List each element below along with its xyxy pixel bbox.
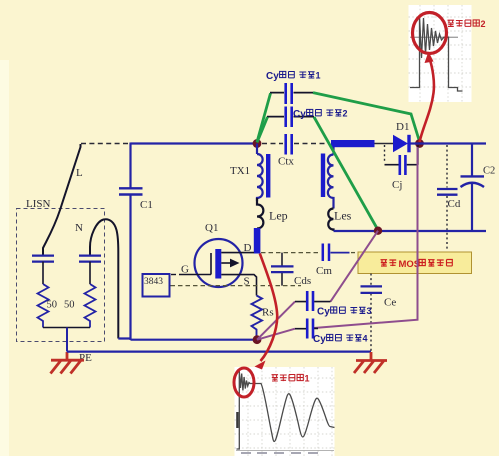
svg-text:2: 2 [481, 19, 486, 29]
waveform 1 trace [237, 371, 335, 449]
capacitor Cy1 position1 [286, 83, 292, 104]
wire [42, 262, 44, 284]
svg-text:Cy: Cy [317, 307, 330, 318]
scope window 2 (top right) [409, 5, 472, 102]
svg-text:Ce: Ce [384, 297, 396, 309]
heatsink box 开关MOS管散热器 [358, 252, 472, 274]
diode D1 [393, 121, 411, 152]
capacitor Cy2 position2 [286, 107, 292, 128]
wire purple Cy3 path (node C to node D) [257, 231, 378, 340]
capacitor Cds [271, 253, 311, 287]
wire green Cy1 path [257, 93, 420, 142]
Q1 gate electrode [196, 253, 211, 275]
svg-text:Cy: Cy [293, 109, 306, 120]
svg-text:1: 1 [305, 374, 310, 384]
svg-text:Cy: Cy [266, 71, 279, 82]
capacitor Cy3 position3 [307, 291, 313, 311]
resistor 50 (left) [38, 284, 49, 328]
LISN box (dashed enclosure) [17, 209, 105, 342]
ground chassis right (red) [354, 352, 387, 373]
svg-text:D: D [244, 242, 252, 254]
svg-text:2: 2 [343, 109, 348, 119]
node A (primary top junction) [253, 139, 262, 148]
capacitor C1 [119, 188, 143, 194]
svg-text:L: L [76, 167, 83, 179]
wire dashed drain line [261, 252, 321, 254]
capacitor Cm [316, 244, 357, 278]
wire green Cy2 path [257, 117, 378, 230]
wire Cy1 leads [270, 92, 313, 94]
svg-text:3: 3 [367, 306, 372, 316]
svg-text:Les: Les [334, 209, 352, 223]
capacitor LISN-left [32, 256, 54, 262]
node C (secondary bottom junction) [374, 227, 382, 235]
svg-text:Q1: Q1 [205, 222, 218, 234]
svg-text:Ctx: Ctx [278, 156, 294, 168]
wire PE rail [67, 351, 371, 353]
wire dashed 3843 to source [171, 285, 302, 287]
svg-text:Cy: Cy [313, 334, 326, 345]
capacitor Ctx [286, 134, 292, 155]
svg-text:4: 4 [363, 334, 368, 344]
svg-text:LISN: LISN [26, 198, 51, 210]
svg-text:1: 1 [316, 71, 321, 81]
wire purple Cy4 path (node D to node B) [257, 147, 418, 340]
capacitor Cd (rail to heatsink, dashed) [437, 145, 461, 251]
annotation ellipse 1 (red circle) [234, 368, 254, 397]
wire bar to D1 [375, 143, 394, 145]
transformer core bar secondary [321, 154, 325, 198]
Q1 channel bar [215, 249, 221, 279]
transformer core bar primary [266, 154, 270, 198]
annotation arrow drain to scope1 (red) [260, 254, 277, 362]
wire top rail [131, 142, 257, 144]
wire bottom rail primary [118, 339, 257, 340]
wire L (curved phase wire) [43, 144, 81, 256]
svg-text:D1: D1 [396, 121, 409, 133]
svg-text:Lep: Lep [269, 209, 288, 223]
wire secondary bottom rail [334, 230, 487, 232]
MOSFET drain thick bar [254, 228, 261, 254]
capacitor Ce (heatsink to earth, dashed) [361, 274, 397, 352]
label 高频干扰1 [272, 374, 310, 384]
Q1 drain lead [221, 252, 254, 254]
label Cy电容 位置1 [266, 71, 321, 83]
svg-text:Cm: Cm [316, 265, 332, 277]
svg-text:3843: 3843 [144, 277, 163, 287]
resistor 50 (right) [85, 284, 96, 328]
annotation ellipse 2 (red circle) [413, 13, 447, 54]
node B (D1 cathode junction) [415, 139, 424, 148]
svg-text:Cj: Cj [392, 179, 402, 191]
scope window 1 (bottom) [235, 367, 335, 456]
capacitor Cy4 position4 [307, 319, 313, 339]
svg-text:50: 50 [47, 300, 58, 311]
wire Cy3 leads [295, 301, 331, 303]
wire dashed Ctx to shield bar [294, 143, 330, 145]
transformer TX1 secondary winding [328, 144, 334, 209]
capacitor C2 (output electrolytic) [461, 144, 496, 231]
svg-text:TX1: TX1 [230, 165, 250, 177]
capacitor LISN-right [79, 256, 101, 262]
label Cy电容 位置4 [313, 334, 368, 346]
svg-text:C2: C2 [483, 166, 495, 177]
svg-text:C1: C1 [140, 199, 153, 211]
capacitor Cj (diode junction cap) [385, 145, 419, 191]
wire [89, 262, 91, 284]
wire Cy4 leads [295, 327, 318, 329]
wire PE drop [66, 328, 68, 352]
label Cy电容 位置2 [293, 109, 348, 121]
Q1 body arrow [221, 262, 236, 264]
shield thick bar (secondary top) [331, 140, 375, 147]
svg-text:N: N [75, 222, 83, 234]
resistor Rs [252, 296, 263, 337]
wire N (curved neutral wire) [90, 219, 118, 338]
wire dashed node to Ctx [262, 143, 283, 145]
node D (primary bottom junction) [253, 335, 262, 344]
IC 3843 box [143, 274, 170, 297]
label 高频干扰2 [448, 19, 486, 29]
svg-text:Rs: Rs [262, 307, 274, 319]
wire top dashed (L to C1) [81, 143, 130, 145]
waveform 2 trace [410, 36, 458, 38]
svg-text:Cd: Cd [448, 198, 461, 210]
inductor Lep (primary leakage) [257, 198, 263, 229]
svg-text:50: 50 [64, 300, 75, 311]
wire Cy2 leads [267, 116, 314, 118]
wire secondary top rail [411, 142, 487, 144]
label Cy电容 位置3 [317, 306, 372, 318]
transistor Q1 (MOSFET) [171, 222, 257, 296]
ground PE (red chassis ground) [51, 352, 85, 374]
wire C1 branch vertical [129, 143, 131, 341]
inductor Les (secondary leakage) [328, 209, 333, 232]
svg-text:Cds: Cds [294, 275, 311, 287]
transformer TX1 primary winding [257, 144, 263, 202]
Q1 source lead [221, 275, 256, 296]
annotation arrow node B to scope2 (red) [420, 60, 434, 142]
wire gate [179, 274, 196, 276]
wire LISN bottom [43, 327, 90, 329]
